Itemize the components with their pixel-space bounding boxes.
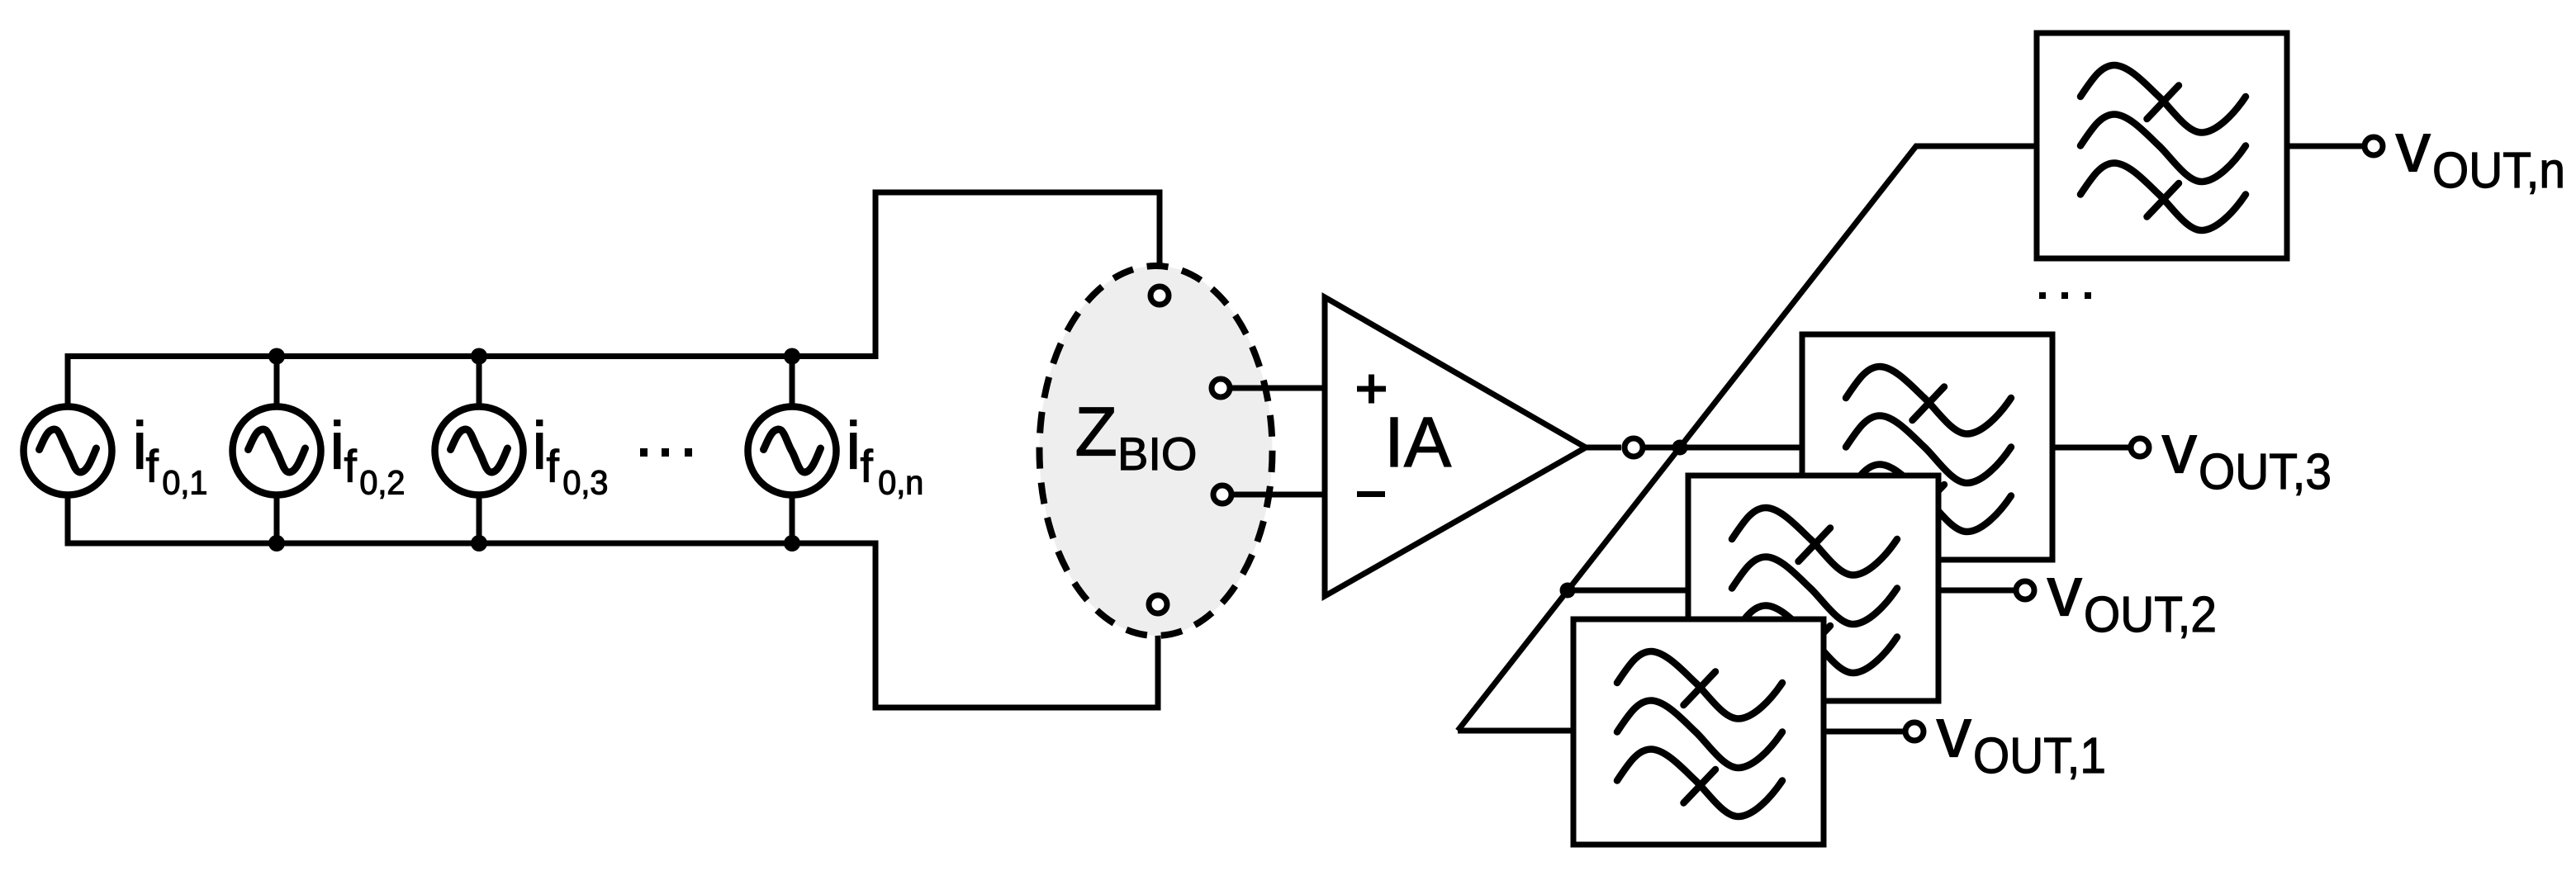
IA output terminal [1625, 438, 1643, 457]
filter F2 box [1688, 476, 1938, 701]
label i_f0,1 [132, 409, 207, 502]
wire filter-n output [2287, 144, 2362, 149]
junction top rail at source n [784, 348, 800, 365]
svg-text:0,1: 0,1 [162, 464, 207, 502]
label v_OUT,2 [2047, 553, 2218, 643]
electrode terminal sense+ [1212, 379, 1230, 397]
label v_OUT,3 [2162, 410, 2332, 500]
label v_OUT,n [2396, 109, 2566, 199]
svg-text:i: i [532, 409, 547, 484]
filter F1 box [1573, 619, 1824, 845]
filter Fn box [2037, 33, 2287, 258]
wire to filter2 [1568, 588, 1688, 594]
wire sense+ to IA [1232, 386, 1325, 391]
svg-text:OUT,3: OUT,3 [2199, 443, 2332, 499]
wire filter2 output [1938, 588, 2014, 594]
svg-text:f: f [344, 441, 358, 492]
junction bottom rail at source 2 [268, 535, 285, 551]
label v_OUT,1 [1937, 694, 2107, 784]
junction top rail at source 3 [471, 348, 487, 365]
svg-text:OUT,n: OUT,n [2432, 142, 2565, 198]
svg-text:v: v [2396, 109, 2431, 187]
svg-text:v: v [1937, 694, 1972, 773]
wire filter3 output [2052, 445, 2128, 451]
junction bottom rail at source n [784, 535, 800, 551]
electrode terminal bottom [1149, 595, 1167, 613]
wire to filter1 [1458, 728, 1573, 734]
current source I2 [233, 407, 321, 495]
svg-text:v: v [2162, 410, 2198, 489]
terminal v_out_n [2365, 137, 2383, 155]
svg-text:OUT,2: OUT,2 [2084, 586, 2217, 642]
terminal v_out_3 [2131, 438, 2149, 457]
wire stub source-n top [790, 357, 795, 409]
terminal v_out_2 [2016, 581, 2034, 599]
svg-text:0,n: 0,n [878, 464, 923, 502]
minus sign [1357, 491, 1385, 497]
junction bottom rail at source 3 [471, 535, 487, 551]
svg-text:IA: IA [1384, 403, 1452, 482]
Zbio tissue ellipse [1040, 266, 1273, 636]
wire bottom rail [68, 495, 1158, 708]
label Z_BIO [1075, 393, 1198, 480]
filter F3 box [1802, 334, 2052, 560]
junction diagonal-output [1672, 440, 1688, 456]
ellipsis filters [2039, 292, 2091, 299]
label i_f0,3 [532, 409, 608, 502]
current source I3 [435, 407, 524, 495]
svg-text:0,3: 0,3 [562, 464, 608, 502]
svg-text:i: i [846, 409, 861, 484]
op-amp IA triangle [1325, 297, 1586, 596]
wire stub source2 bottom [274, 495, 280, 543]
electrode terminal top [1150, 286, 1169, 305]
wire top rail [68, 192, 1160, 409]
svg-text:f: f [547, 441, 560, 492]
terminal v_out_1 [1905, 722, 1924, 741]
electrode terminal sense- [1213, 485, 1231, 504]
label i_f0,n [846, 409, 923, 502]
svg-text:v: v [2047, 553, 2083, 632]
svg-text:f: f [861, 441, 874, 492]
junction top rail at source 2 [268, 348, 285, 365]
current source In [748, 407, 837, 495]
wire stub source-n bottom [790, 495, 795, 543]
svg-text:0,2: 0,2 [359, 464, 405, 502]
wire fanout diagonal [1458, 146, 2037, 731]
svg-text:OUT,1: OUT,1 [1973, 727, 2106, 783]
wire filter1 output [1825, 729, 1903, 735]
wire output node to filter3 [1645, 445, 1802, 451]
wire sense- to IA [1234, 492, 1325, 498]
current source I1 [24, 407, 112, 495]
junction diagonal-filter2 [1560, 583, 1576, 599]
svg-text:BIO: BIO [1117, 428, 1197, 480]
wire stub source3 top [477, 357, 482, 409]
ellipsis between sources [640, 448, 692, 457]
svg-text:Z: Z [1075, 393, 1117, 471]
svg-text:f: f [146, 441, 159, 492]
wire stub source3 bottom [477, 495, 482, 543]
label i_f0,2 [330, 409, 405, 502]
svg-text:i: i [330, 409, 344, 484]
wire IA output [1586, 445, 1621, 451]
wire stub source2 top [274, 357, 280, 409]
plus sign [1357, 375, 1386, 404]
